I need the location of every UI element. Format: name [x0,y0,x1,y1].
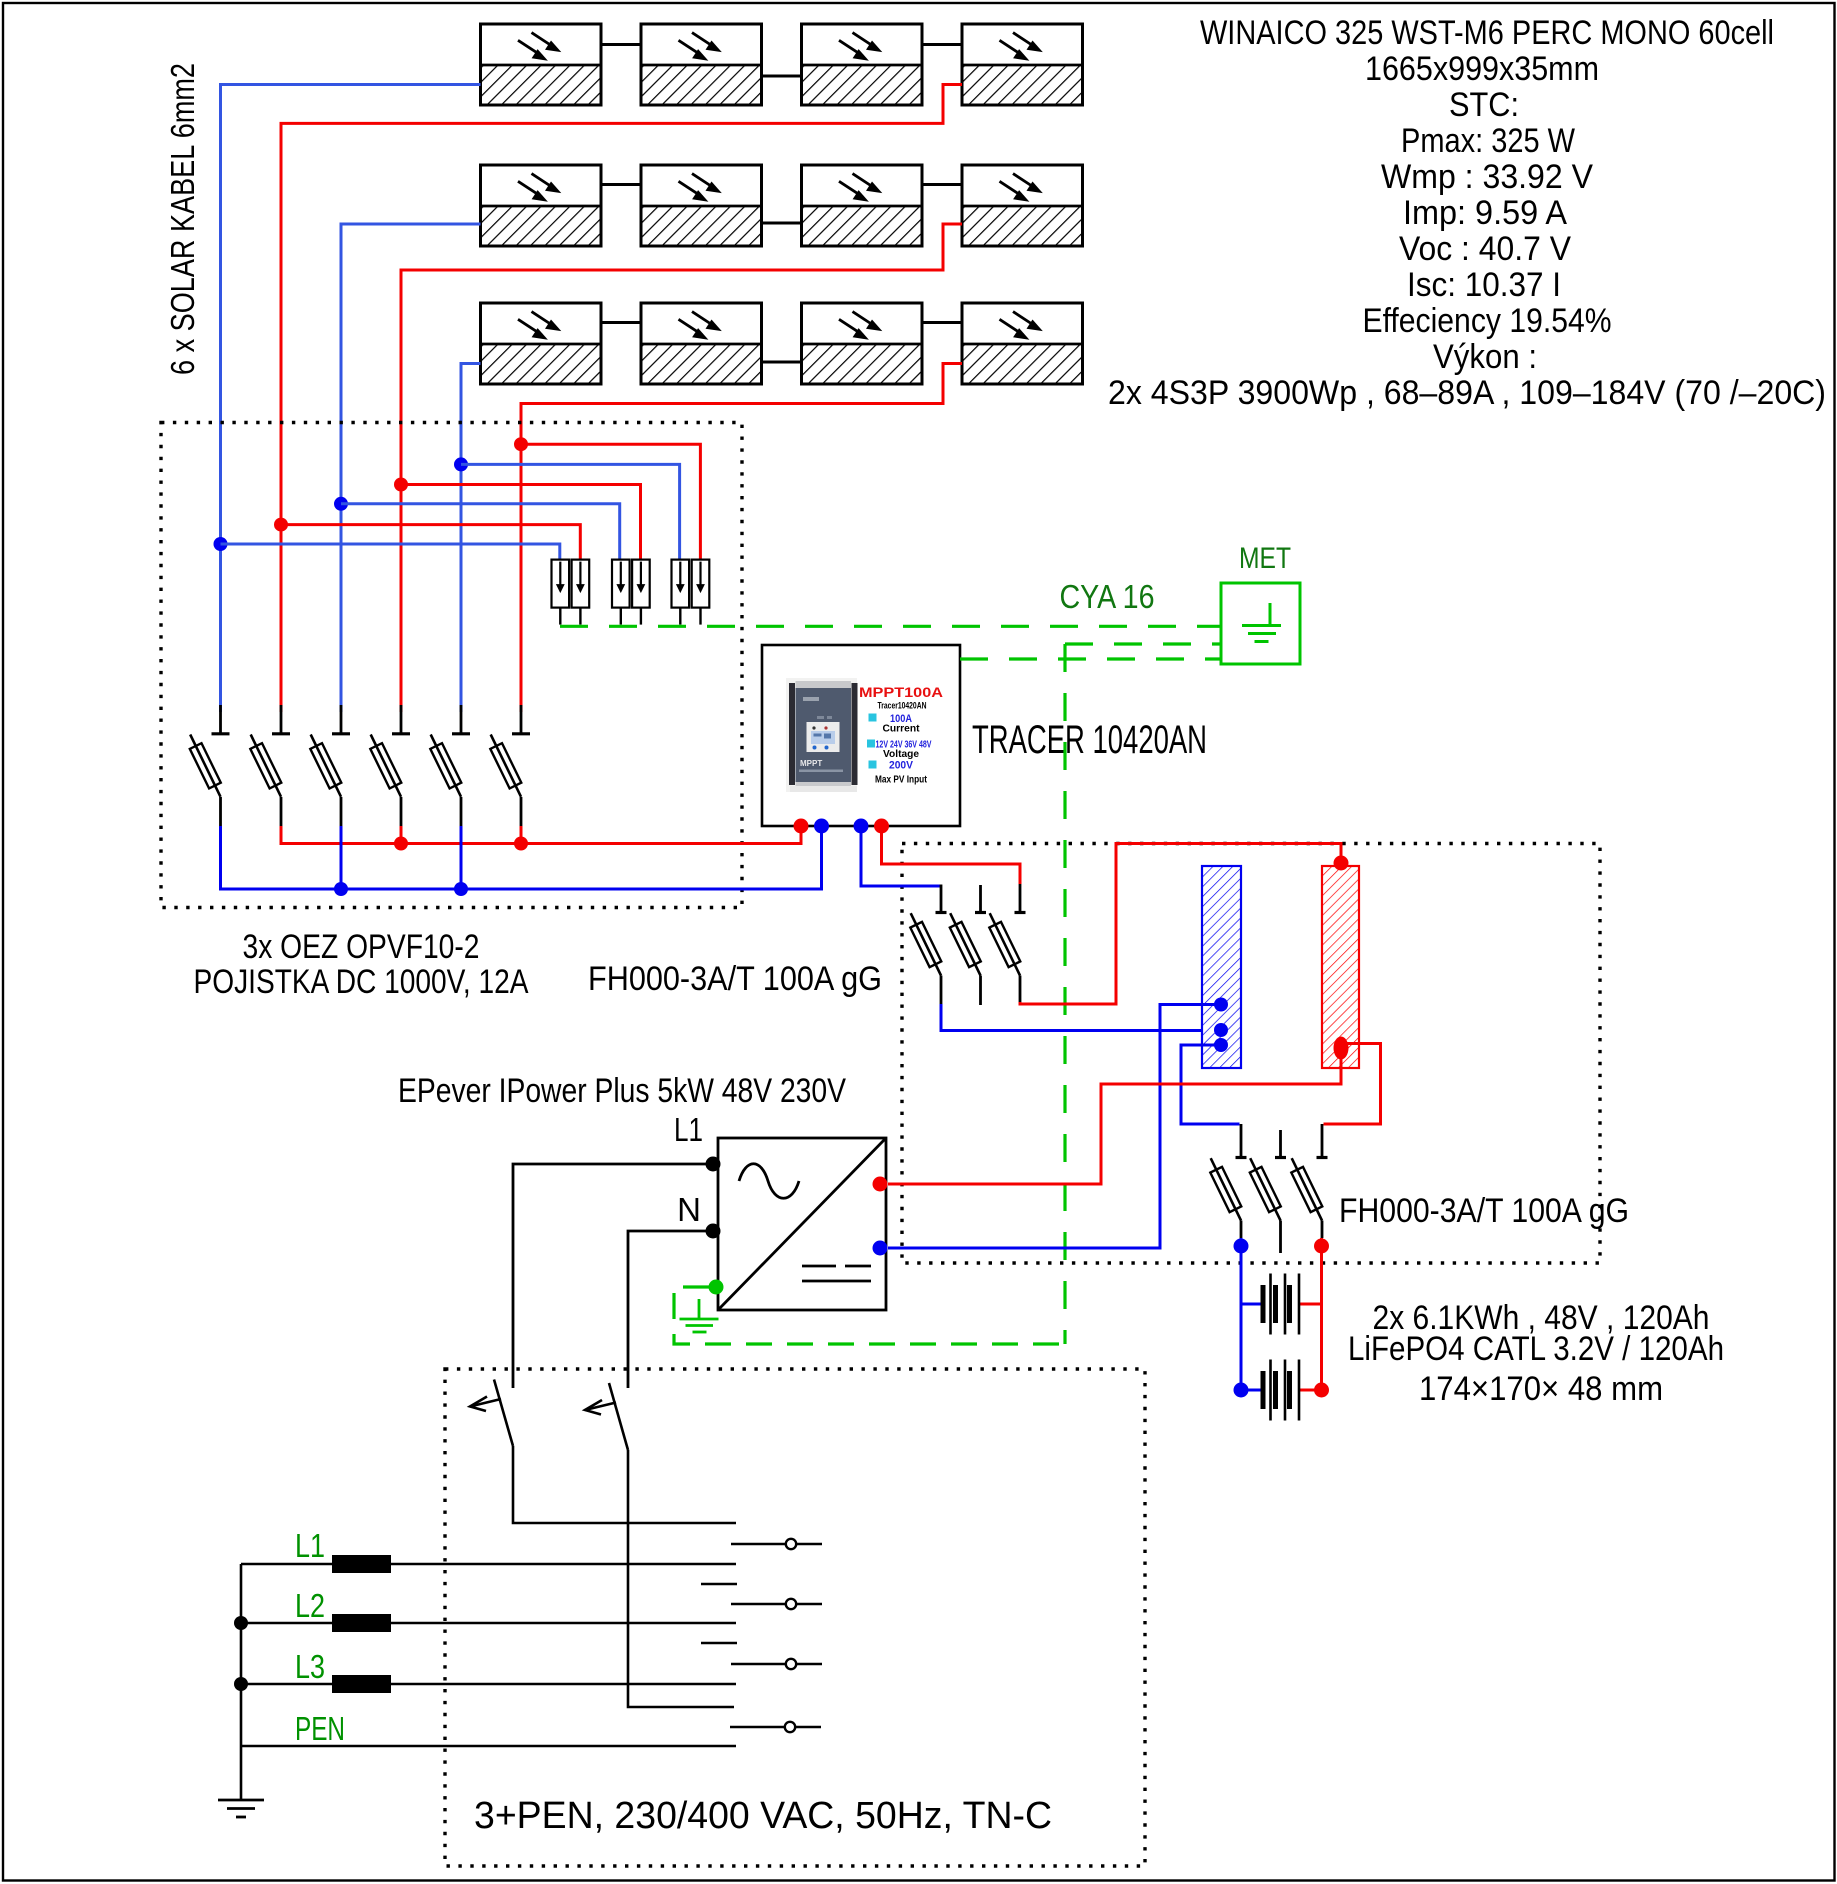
wire PE dashed vertical trunk [1063,644,1066,1344]
wire SPD3 feed [341,504,620,560]
U2 terminal AC+ [873,1177,888,1192]
U1 cyan square 3 [869,761,877,769]
wire Tracer BAT+ to fuse FC [882,826,1021,884]
svg-text:FH000-3A/T 100A gG: FH000-3A/T 100A gG [588,960,882,998]
wire PE dashed Tracer to MET [960,657,1221,660]
node F6 junction [514,837,528,851]
fuse F5 (DC string fuse) [460,705,463,733]
battery combiner dotted box [902,844,1600,1264]
wire FC output to busbar+ top [1020,844,1341,1005]
wire string3 negative (blue) [461,364,481,713]
PV panel PV6 [641,165,762,246]
svg-text:MPPT: MPPT [800,759,822,768]
contact stub 2 [701,1642,737,1645]
wire string2 negative (blue) [341,224,481,712]
svg-text:174×170× 48 mm: 174×170× 48 mm [1419,1370,1663,1408]
fuse FA (battery fuse) [910,913,946,976]
PV panel PV11 [802,303,923,384]
svg-text:Max PV Input: Max PV Input [875,775,928,786]
svg-text:200V: 200V [889,760,914,772]
PV panel PV10 [641,303,762,384]
wire PV- bus to Tracer [221,826,822,889]
fuse FD (battery fuse 2) [1240,1124,1243,1157]
wire SPD5 feed [461,464,680,560]
fuse F2 (DC string fuse) [280,705,283,733]
wire busbar+ to fuse FF [1324,1044,1381,1125]
node F4 junction [394,837,408,851]
svg-text:1665x999x35mm: 1665x999x35mm [1365,50,1599,88]
busbar minus (blue) [1202,866,1241,1068]
node busbar- n1 [1214,998,1228,1012]
svg-text:6 x SOLAR KABEL 6mm2: 6 x SOLAR KABEL 6mm2 [164,63,201,375]
charge controller U1 TRACER box [762,645,960,826]
wire string3 positive (red) [521,364,962,713]
surge arrester SPD3 [612,560,630,625]
wire PE dashed trunk to MET [1065,642,1221,645]
contact row 1 [731,1539,822,1549]
node busbar- n3 [1214,1038,1228,1052]
svg-text:3+PEN, 230/400 VAC, 50Hz, TN-C: 3+PEN, 230/400 VAC, 50Hz, TN-C [474,1795,1052,1837]
PV panel PV5 [481,165,602,246]
wire F3 output [340,826,343,889]
inverter U2 box [718,1138,886,1310]
svg-text:POJISTKA DC 1000V, 12A: POJISTKA DC 1000V, 12A [194,963,529,1001]
svg-text:Pmax: 325 W: Pmax: 325 W [1401,122,1575,160]
wire N to switch SW2 [628,1231,713,1388]
PV panel PV4 [962,24,1083,105]
wire F4 output [400,826,403,844]
svg-text:LiFePO4 CATL 3.2V / 120Ah: LiFePO4 CATL 3.2V / 120Ah [1348,1330,1724,1368]
svg-text:Imp: 9.59 A: Imp: 9.59 A [1403,194,1567,232]
U2 terminal N [706,1224,721,1239]
PV panel PV12 [962,303,1083,384]
wire SPD4 feed [401,485,641,561]
U2 terminal AC- [873,1241,888,1256]
wire busbar+ to inverter [888,1052,1341,1184]
text WINAICO spec block [1108,14,1826,412]
U1 cyan square 1 [869,714,877,722]
svg-text:L3: L3 [295,1648,325,1685]
wire F6 output [520,826,523,844]
U1 cyan square 2 [867,740,875,748]
node F5 junction [454,882,468,896]
MET earth symbol [1242,603,1281,642]
node string1- junction [214,537,228,551]
node L2 junction [234,1616,248,1630]
U1 product photo [786,678,858,792]
svg-text:2x 4S3P 3900Wp , 68–89A , 109–: 2x 4S3P 3900Wp , 68–89A , 109–184V (70 /… [1108,374,1826,412]
U2 terminal L1 [706,1157,721,1172]
U2 terminal PE [709,1280,724,1295]
svg-text:MPPT100A: MPPT100A [859,685,943,700]
wire PV10-PV11 [762,361,802,364]
node battery+ top [1314,1239,1329,1254]
node battery+ bottom [1314,1383,1329,1398]
svg-text:Voltage: Voltage [883,749,919,760]
ground earth symbol grid [218,1800,264,1817]
wire string1 positive (red) [281,85,962,713]
wire PV11-PV12 [922,321,962,324]
wire PV1-PV2 [601,43,641,46]
MET earth box [1221,583,1300,664]
wire string2 positive (red) [401,224,962,712]
fuse F6 (DC string fuse) [520,705,523,733]
fuse FF (battery fuse 2) [1321,1124,1324,1157]
U2 sine symbol [739,1164,799,1199]
node string1+ junction [274,518,288,532]
wire L1 feeder [241,1563,736,1566]
PV panel PV9 [481,303,602,384]
wire L3 feeder [241,1683,736,1686]
U2 DC symbol [802,1266,871,1281]
fuse FC (battery fuse) [989,913,1025,976]
contact row 2 [731,1599,822,1609]
svg-text:Voc : 40.7 V: Voc : 40.7 V [1399,230,1571,268]
svg-text:CYA 16: CYA 16 [1060,578,1155,615]
wire PV9-PV10 [601,321,641,324]
svg-text:EPever IPower Plus 5kW 48V 230: EPever IPower Plus 5kW 48V 230V [398,1072,846,1110]
wire PEN feeder [242,1745,736,1748]
wire PV7-PV8 [922,183,962,186]
node string3- junction [454,457,468,471]
svg-text:Wmp : 33.92 V: Wmp : 33.92 V [1381,158,1593,196]
svg-text:MET: MET [1239,542,1291,575]
node battery- bottom [1234,1383,1249,1398]
wire PV+ bus to Tracer [281,826,801,844]
svg-text:L1: L1 [295,1527,325,1564]
wire SPD2 feed [281,525,580,560]
svg-text:FH000-3A/T 100A gG: FH000-3A/T 100A gG [1339,1192,1629,1230]
wire battery minus rail [1240,1238,1243,1390]
svg-text:STC:: STC: [1449,86,1519,124]
PV panel PV7 [802,165,923,246]
wire battery plus rail [1320,1238,1323,1390]
U2 PE earth symbol [680,1299,719,1332]
contact row 3 [731,1659,822,1669]
wire PV5-PV6 [601,183,641,186]
node busbar- n2 [1214,1023,1228,1037]
wire grid trunk vertical [240,1564,243,1799]
surge arrester SPD2 [572,560,590,625]
fuse L3 block [332,1675,391,1693]
U1 terminal PV+ [794,819,809,834]
fuse L2 block [332,1614,391,1632]
svg-text:Effeciency 19.54%: Effeciency 19.54% [1363,302,1612,340]
fuse F3 (DC string fuse) [340,705,343,733]
switch SW1 [470,1380,736,1524]
surge arrester SPD5 [672,560,690,625]
PV panel PV8 [962,165,1083,246]
node F3 junction [334,882,348,896]
wire L2 feeder [241,1622,736,1625]
surge arrester SPD1 [552,560,570,625]
battery BT1 [1241,1274,1322,1335]
wire Tracer BAT- to fuse FA [861,826,941,886]
PV panel PV1 [481,24,602,105]
svg-text:3x OEZ OPVF10-2: 3x OEZ OPVF10-2 [243,928,480,966]
wire PV3-PV4 [922,43,962,46]
svg-text:Tracer10420AN: Tracer10420AN [878,701,927,712]
svg-text:N: N [677,1191,701,1228]
fuse FB (battery fuse spare) [979,885,982,912]
wire SPD1 feed [221,544,560,560]
svg-text:L1: L1 [674,1111,703,1148]
wire PV2-PV3 [762,75,802,78]
fuse L1 block [332,1555,391,1573]
switch SW2 [585,1383,734,1707]
battery BT2 [1241,1360,1322,1421]
node busbar+ bottom [1334,1037,1349,1060]
U1 terminal PV- [814,819,829,834]
fuse F1 (DC string fuse) [219,705,222,733]
surge arrester SPD6 [692,560,710,625]
U2 diagonal [718,1138,886,1310]
svg-text:PEN: PEN [295,1710,345,1747]
surge arrester SPD4 [632,560,650,625]
U1 terminal BAT+ [874,819,889,834]
node battery- top [1234,1239,1249,1254]
node L3 junction [234,1677,248,1691]
wire PV6-PV7 [762,222,802,225]
svg-text:Current: Current [883,724,921,735]
node busbar+ top [1334,856,1349,871]
contact stub 1 [701,1583,737,1586]
DC combiner dotted box [161,423,742,908]
fuse FE (battery fuse 2 spare) [1279,1130,1282,1157]
PV panel PV3 [802,24,923,105]
wire string1 negative (blue) [221,85,481,713]
wire L1 to switch SW1 [513,1164,713,1388]
svg-text:Výkon :: Výkon : [1433,338,1537,376]
wire busbar- to inverter [888,1005,1221,1249]
svg-text:WINAICO 325 WST-M6 PERC MONO: WINAICO 325 WST-M6 PERC MONO 60cell [1200,14,1774,52]
busbar plus (red) [1322,866,1359,1068]
U1 terminal BAT- [854,819,869,834]
node string3+ junction [514,437,528,451]
wire U2 PE dashed bracket [674,1287,1065,1344]
AC distribution dotted box [445,1369,1145,1866]
node string2- junction [334,497,348,511]
wire PE dashed from SPDs to MET [560,625,1221,628]
svg-text:Isc: 10.37 I: Isc: 10.37 I [1407,266,1561,304]
wire FA output to busbar- [941,1004,1221,1031]
PV panel PV2 [641,24,762,105]
svg-text:L2: L2 [295,1587,325,1624]
contact row 4 [730,1722,821,1732]
wire F5 output [460,826,463,889]
svg-text:TRACER 10420AN: TRACER 10420AN [972,718,1207,762]
wire SPD6 feed [521,444,700,560]
node string2+ junction [394,478,408,492]
fuse F4 (DC string fuse) [400,705,403,733]
wire busbar- to fuse FD [1181,1045,1240,1124]
